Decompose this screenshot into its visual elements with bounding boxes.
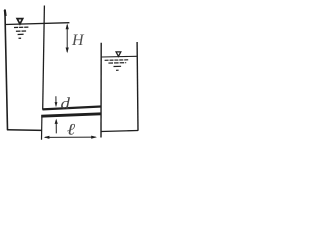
svg-text:ℓ: ℓ — [67, 121, 76, 138]
svg-text:d: d — [61, 94, 71, 112]
svg-text:H: H — [71, 32, 85, 49]
